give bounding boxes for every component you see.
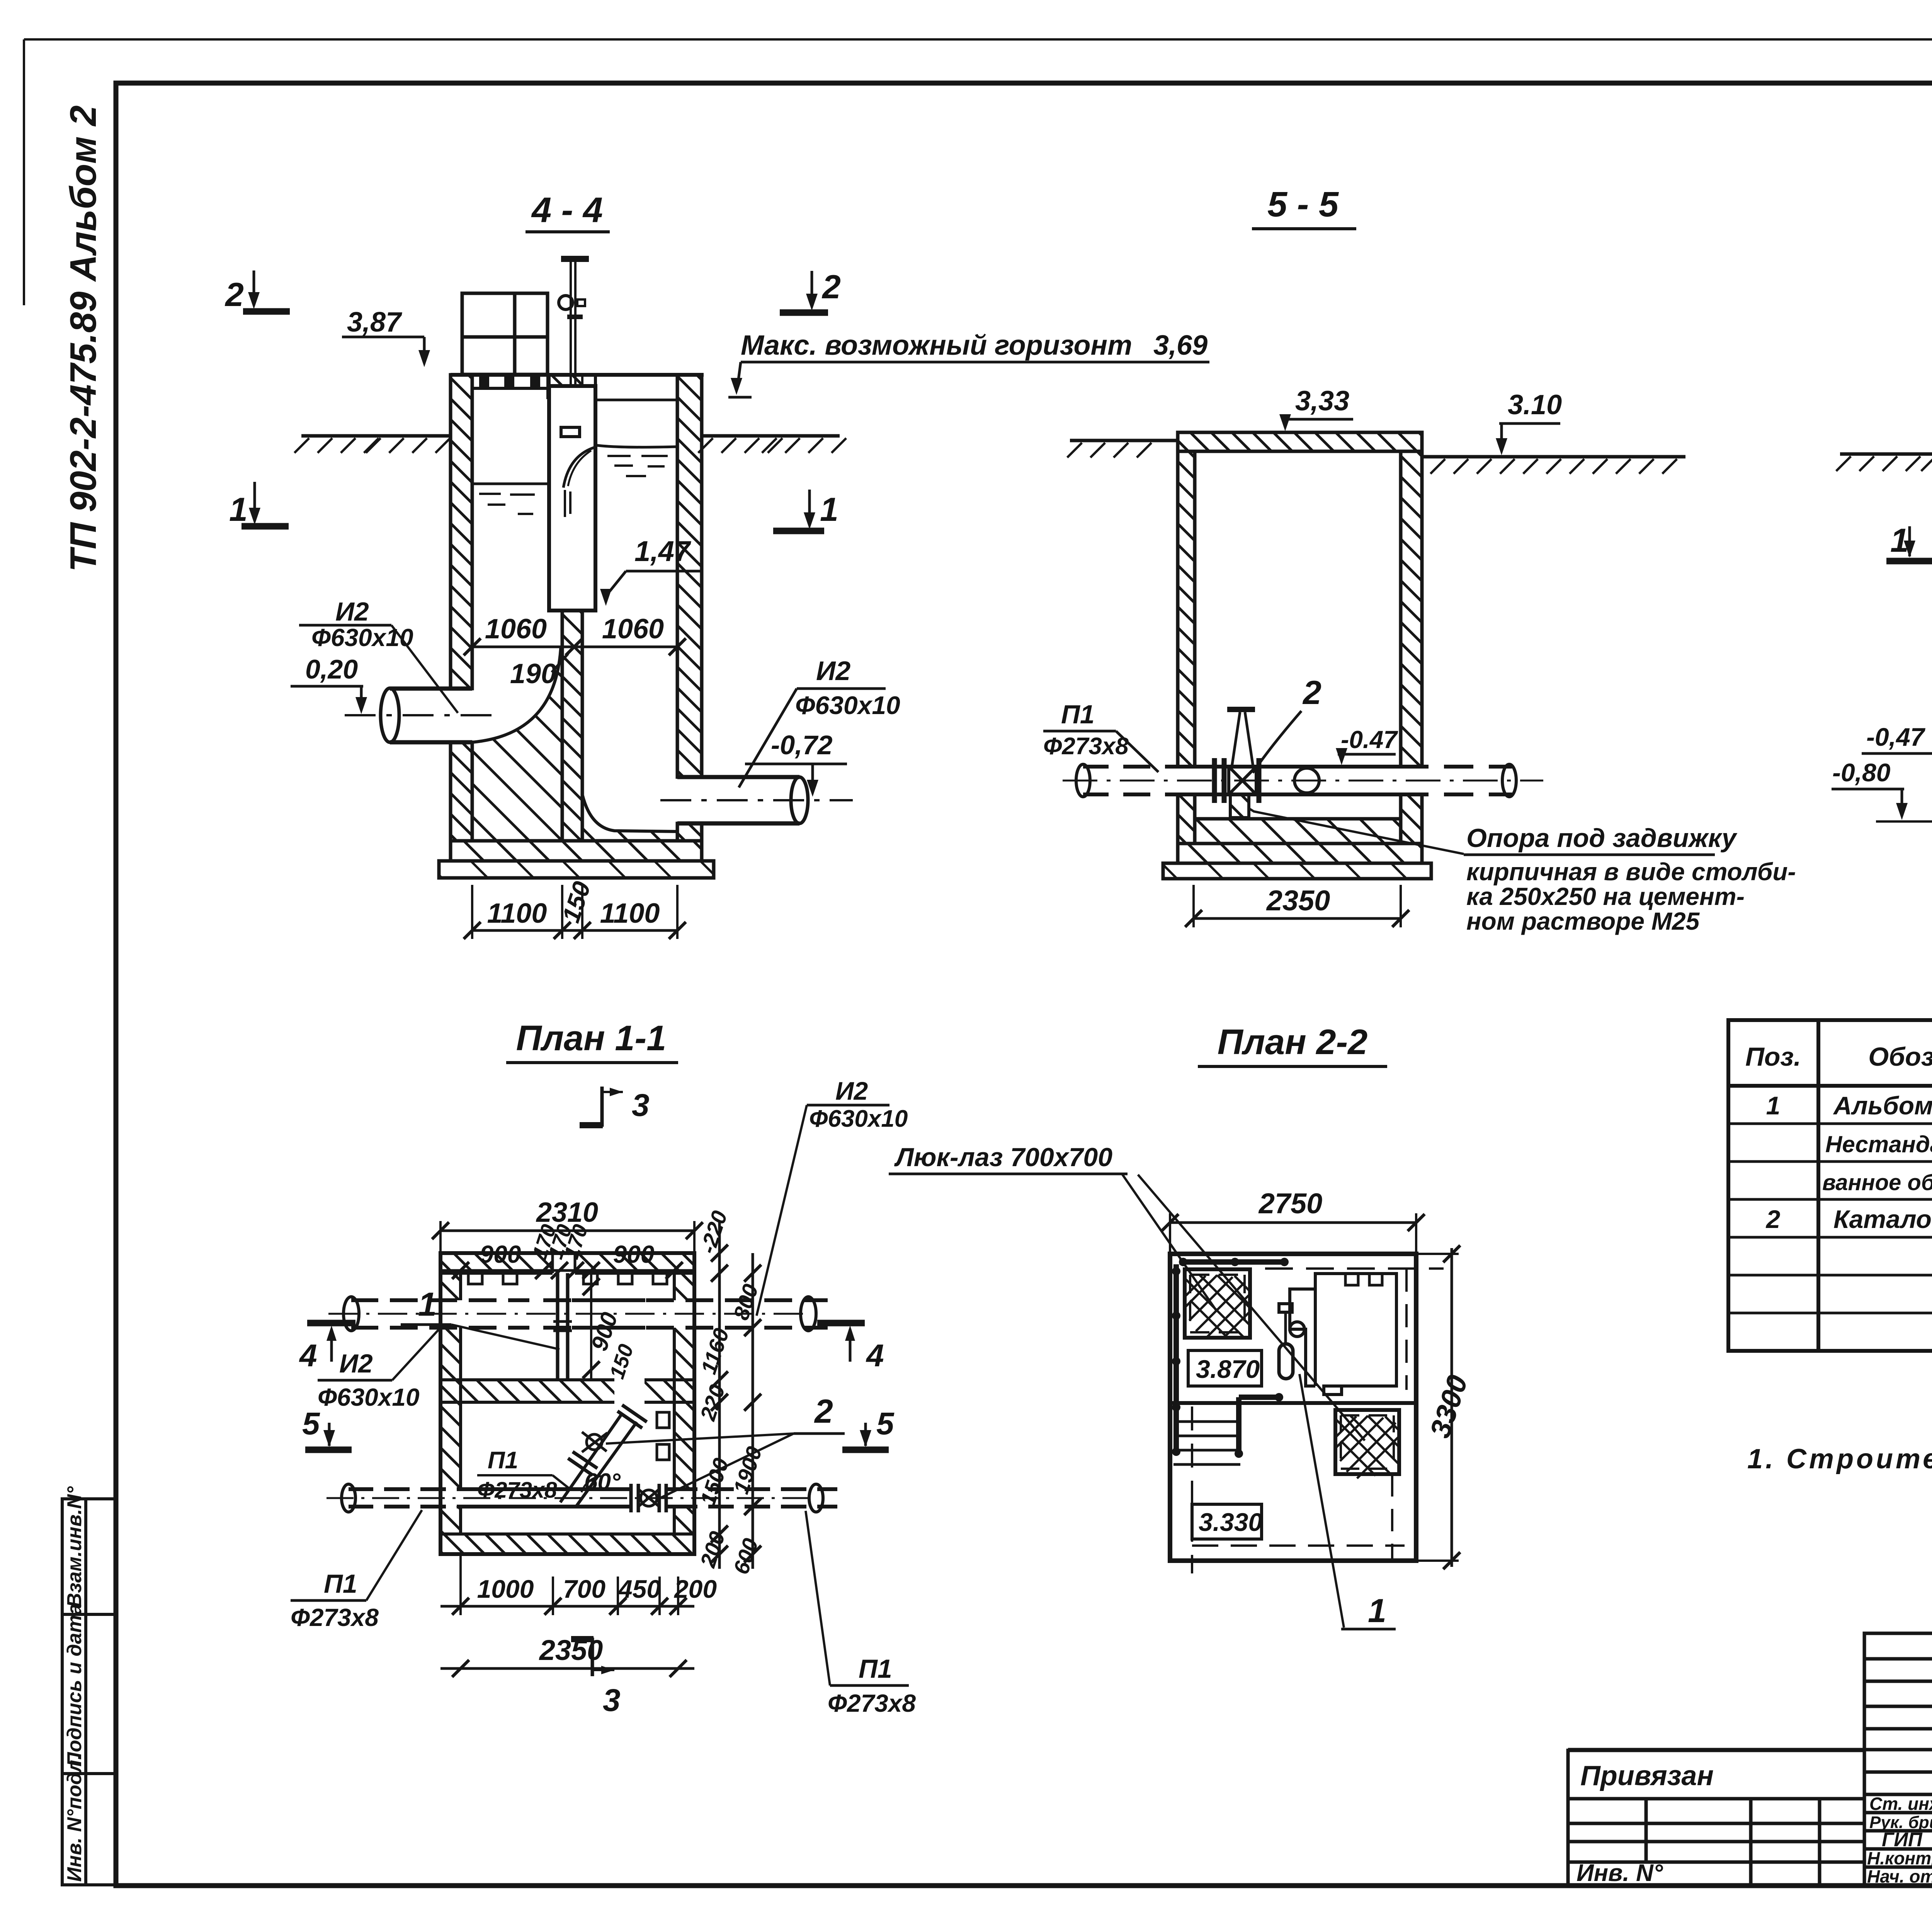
equipment outline top right bbox=[1290, 1289, 1315, 1386]
svg-text:60°: 60° bbox=[584, 1469, 621, 1495]
dim 2310 bbox=[440, 1221, 694, 1253]
bench bbox=[1195, 817, 1401, 821]
pipe solid inside bbox=[1195, 767, 1401, 794]
svg-text:-0,80: -0,80 bbox=[1832, 758, 1891, 787]
svg-text:И2: И2 bbox=[835, 1077, 868, 1105]
svg-text:1060: 1060 bbox=[485, 614, 547, 645]
middle wall hatch bbox=[440, 1380, 614, 1402]
P1 pipe bottom chamber bbox=[349, 1489, 475, 1507]
svg-text:2310: 2310 bbox=[536, 1197, 598, 1228]
right vertical dim chain A bbox=[718, 1221, 721, 1569]
top slab bbox=[1178, 432, 1422, 451]
stuffing box flange bbox=[567, 315, 583, 319]
svg-text:План 2-2: План 2-2 bbox=[1218, 1022, 1368, 1062]
svg-text:ка 250х250 на цемент-: ка 250х250 на цемент- bbox=[1466, 883, 1745, 910]
svg-text:190: 190 bbox=[510, 658, 556, 689]
svg-text:Нач. отд.: Нач. отд. bbox=[1867, 1866, 1932, 1886]
svg-text:2: 2 bbox=[224, 276, 244, 313]
svg-text:Макс. возможный горизонт: Макс. возможный горизонт bbox=[741, 330, 1132, 361]
svg-text:Ст. инж.: Ст. инж. bbox=[1869, 1794, 1932, 1814]
svg-text:Ф630х10: Ф630х10 bbox=[311, 624, 413, 651]
railing left bbox=[1173, 1264, 1179, 1454]
svg-text:2: 2 bbox=[1302, 674, 1321, 711]
svg-text:Подпись и дата: Подпись и дата bbox=[63, 1604, 86, 1767]
svg-text:2: 2 bbox=[1765, 1205, 1781, 1233]
svg-text:П1: П1 bbox=[859, 1654, 892, 1684]
top slab line bbox=[451, 373, 704, 377]
water surface right chamber bbox=[595, 445, 677, 447]
svg-text:1,47: 1,47 bbox=[634, 535, 692, 567]
svg-text:-0,72: -0,72 bbox=[771, 730, 833, 760]
bottom slab bbox=[451, 841, 702, 861]
svg-text:1. Строительные конструкции: 1. Строительные конструкции см Альбом 3 … bbox=[1747, 1444, 1932, 1475]
svg-text:И2: И2 bbox=[816, 656, 850, 686]
dim 900 150 inside bbox=[590, 1273, 592, 1380]
circle on pipe bbox=[1294, 768, 1319, 793]
ground left bbox=[1070, 439, 1178, 442]
elev 3.870 box bbox=[1188, 1350, 1262, 1386]
centre signature table bbox=[1864, 1633, 1932, 1886]
left wall bbox=[1178, 451, 1195, 767]
svg-text:0,20: 0,20 bbox=[305, 654, 358, 684]
svg-text:ГИП: ГИП bbox=[1882, 1828, 1923, 1850]
dashed inner rect upper bbox=[1183, 1267, 1444, 1270]
svg-text:План 1-1: План 1-1 bbox=[516, 1019, 667, 1058]
section marker 4 left bbox=[307, 1320, 355, 1327]
hatch square upper (hatch opening) bbox=[1185, 1269, 1250, 1338]
base plate bbox=[439, 861, 714, 878]
section marker 5 right bbox=[864, 1423, 867, 1446]
svg-text:Инв. N°: Инв. N° bbox=[1577, 1860, 1663, 1886]
svg-text:900: 900 bbox=[613, 1240, 655, 1268]
outer trim line top bbox=[24, 38, 1932, 41]
railing mid bbox=[1239, 1395, 1281, 1400]
pipe dashed left bbox=[1083, 767, 1195, 794]
svg-text:П1: П1 bbox=[488, 1447, 518, 1474]
svg-text:П1: П1 bbox=[1061, 700, 1095, 729]
pipe dashed right bbox=[1401, 767, 1512, 794]
left wall hatch bbox=[440, 1273, 461, 1300]
svg-text:Альбом 5: Альбом 5 bbox=[1833, 1091, 1932, 1120]
svg-text:1: 1 bbox=[229, 491, 248, 528]
svg-text:Взам.инв.N°: Взам.инв.N° bbox=[63, 1486, 86, 1608]
bottom dim row 1000 700 450 200 bbox=[461, 1554, 678, 1615]
svg-text:Ф630х10: Ф630х10 bbox=[795, 691, 900, 719]
svg-text:3: 3 bbox=[603, 1683, 621, 1718]
bottom dims 1100 150 1100 bbox=[472, 885, 677, 939]
svg-text:4: 4 bbox=[299, 1338, 317, 1373]
svg-text:4 - 4: 4 - 4 bbox=[531, 190, 603, 230]
ground line left bbox=[301, 434, 451, 438]
privyazan box bbox=[1568, 1750, 1864, 1799]
left attribute strip bbox=[62, 1499, 116, 1885]
svg-text:П1: П1 bbox=[324, 1569, 357, 1599]
section marker 3 bottom bbox=[591, 1638, 594, 1676]
svg-text:1: 1 bbox=[1368, 1592, 1386, 1629]
valve flange right bbox=[1257, 758, 1262, 803]
svg-text:ванное оборудование: ванное оборудование bbox=[1822, 1170, 1932, 1195]
svg-text:И2: И2 bbox=[335, 597, 369, 626]
parts table bbox=[1728, 1020, 1932, 1351]
water surface left chamber bbox=[472, 483, 549, 485]
weir jet bbox=[563, 447, 594, 488]
ground line right bbox=[702, 434, 840, 438]
outer trim line left segment bbox=[23, 39, 25, 305]
valve plan symbol bbox=[1279, 1304, 1292, 1312]
svg-text:ном растворе М25: ном растворе М25 bbox=[1466, 907, 1700, 935]
dim 2350 bbox=[440, 1667, 694, 1670]
svg-text:3.330: 3.330 bbox=[1199, 1508, 1262, 1536]
right wall hatch bbox=[674, 1273, 694, 1300]
inlet pipe left bbox=[390, 689, 472, 742]
svg-text:Люк-лаз 700х700: Люк-лаз 700х700 bbox=[894, 1143, 1112, 1172]
dim 3300 bbox=[1416, 1254, 1459, 1561]
outlet pipe right bbox=[677, 777, 799, 823]
slab hatch right of box bbox=[548, 376, 582, 398]
divider wall below gate bbox=[562, 611, 582, 841]
svg-text:5 - 5: 5 - 5 bbox=[1267, 185, 1339, 224]
section marker 4 right bbox=[817, 1320, 865, 1327]
svg-text:700: 700 bbox=[563, 1575, 605, 1603]
gate guide bracket bbox=[561, 427, 580, 437]
left sub table bbox=[1568, 1799, 1864, 1886]
anchor squares top chamber bbox=[468, 1273, 669, 1460]
I2 pipe top chamber dashed bbox=[351, 1300, 645, 1328]
right chamber bench fill bbox=[582, 794, 677, 841]
svg-text:2350: 2350 bbox=[539, 1634, 603, 1666]
elev 3.330 box bbox=[1192, 1504, 1262, 1539]
svg-text:3: 3 bbox=[632, 1088, 650, 1123]
top wall hatch bbox=[440, 1253, 553, 1273]
svg-text:Ф273х8: Ф273х8 bbox=[1043, 733, 1129, 760]
opora leader bbox=[1249, 808, 1464, 854]
railing top bbox=[1179, 1259, 1287, 1265]
svg-text:Ф630х10: Ф630х10 bbox=[318, 1383, 420, 1411]
svg-text:кирпичная в виде столби-: кирпичная в виде столби- bbox=[1466, 858, 1796, 886]
svg-text:4: 4 bbox=[866, 1338, 884, 1373]
valve spindle bbox=[1232, 712, 1253, 767]
P1 pipe solid inside bbox=[461, 1489, 629, 1507]
diagonal branch 60deg bbox=[560, 1413, 637, 1507]
dim 2750 bbox=[1170, 1213, 1416, 1254]
svg-text:3,33: 3,33 bbox=[1295, 386, 1349, 417]
svg-text:1000: 1000 bbox=[477, 1575, 534, 1603]
equipment box 2x2 bbox=[462, 293, 548, 374]
svg-text:450: 450 bbox=[617, 1575, 661, 1603]
svg-text:Н.контр.: Н.контр. bbox=[1867, 1848, 1932, 1868]
svg-text:1060: 1060 bbox=[602, 614, 664, 645]
brick support bbox=[1230, 794, 1249, 818]
title block bbox=[1568, 1633, 1932, 1886]
horizontal valve in plan bbox=[631, 1484, 638, 1512]
svg-text:900: 900 bbox=[480, 1240, 521, 1268]
svg-text:Ф273х8: Ф273х8 bbox=[291, 1604, 379, 1631]
dim 2350 bbox=[1194, 885, 1401, 927]
dim 1060 1060 bbox=[472, 646, 677, 648]
plan outer rect bbox=[1170, 1254, 1416, 1561]
svg-text:Поз.: Поз. bbox=[1745, 1042, 1801, 1071]
svg-text:Каталог ЦКБА: Каталог ЦКБА bbox=[1833, 1205, 1932, 1233]
svg-text:Привязан: Привязан bbox=[1580, 1760, 1714, 1791]
svg-text:1100: 1100 bbox=[600, 898, 660, 929]
svg-text:200: 200 bbox=[673, 1575, 717, 1603]
spindle T-handle bbox=[561, 256, 589, 262]
svg-text:-0,47: -0,47 bbox=[1866, 723, 1926, 751]
bottom slab bbox=[1178, 844, 1422, 863]
bottom wall hatch bbox=[440, 1534, 694, 1554]
svg-text:3.10: 3.10 bbox=[1508, 389, 1562, 420]
valve body X bbox=[1229, 767, 1256, 794]
gate plate in plan bbox=[558, 1273, 568, 1380]
left wall hatched bbox=[451, 375, 472, 689]
dashed inner rect lower bbox=[1191, 1406, 1193, 1573]
plan outer rect bbox=[440, 1253, 694, 1554]
left chamber bench fill bbox=[472, 650, 562, 841]
gate unit bbox=[549, 386, 595, 611]
svg-text:3,87: 3,87 bbox=[347, 307, 402, 338]
ground left bbox=[1840, 452, 1932, 456]
slab underside with anchors bbox=[472, 387, 549, 390]
mid wall line bbox=[1170, 1401, 1416, 1405]
right vertical dim chain B bbox=[752, 1253, 754, 1569]
svg-text:Ф630х10: Ф630х10 bbox=[809, 1105, 908, 1132]
right wall hatched bbox=[677, 375, 702, 777]
svg-text:Опора под задвижку: Опора под задвижку bbox=[1466, 823, 1738, 853]
svg-text:Нестандартизиро-: Нестандартизиро- bbox=[1825, 1131, 1932, 1157]
svg-text:5: 5 bbox=[302, 1406, 320, 1441]
ground right bbox=[1422, 455, 1685, 459]
svg-text:Ф273х8: Ф273х8 bbox=[477, 1478, 557, 1503]
svg-text:3.870: 3.870 bbox=[1196, 1355, 1260, 1383]
svg-text:2: 2 bbox=[814, 1393, 833, 1430]
handwheel circle bbox=[559, 296, 573, 310]
svg-text:5: 5 bbox=[876, 1406, 895, 1441]
svg-text:-0.47: -0.47 bbox=[1341, 726, 1398, 753]
svg-text:2750: 2750 bbox=[1258, 1187, 1323, 1219]
svg-text:1: 1 bbox=[418, 1286, 437, 1323]
svg-text:ТП 902-2-475.89 Альбом 2: ТП 902-2-475.89 Альбом 2 bbox=[63, 105, 104, 572]
svg-text:И2: И2 bbox=[339, 1349, 373, 1378]
stairs bbox=[1173, 1422, 1240, 1464]
base plate bbox=[1163, 863, 1431, 879]
svg-text:3,69: 3,69 bbox=[1153, 330, 1207, 361]
max level line in right chamber bbox=[595, 399, 677, 401]
svg-text:1: 1 bbox=[820, 491, 838, 528]
svg-text:Ф273х8: Ф273х8 bbox=[828, 1689, 916, 1717]
pipe centerline bbox=[1063, 780, 1543, 782]
section marker 3 top bbox=[600, 1087, 604, 1127]
svg-text:2350: 2350 bbox=[1266, 884, 1330, 917]
svg-text:1: 1 bbox=[1766, 1091, 1781, 1120]
svg-text:Обозначение: Обозначение bbox=[1868, 1042, 1932, 1071]
svg-text:1100: 1100 bbox=[487, 898, 547, 929]
hatch square lower bbox=[1335, 1410, 1399, 1474]
svg-text:Инв. N°подл.: Инв. N°подл. bbox=[63, 1754, 86, 1882]
dim row 900 170x3 900 bbox=[440, 1269, 694, 1272]
valve flanges left bbox=[1214, 758, 1224, 803]
svg-text:2: 2 bbox=[821, 269, 841, 306]
right wall bbox=[1401, 451, 1422, 767]
